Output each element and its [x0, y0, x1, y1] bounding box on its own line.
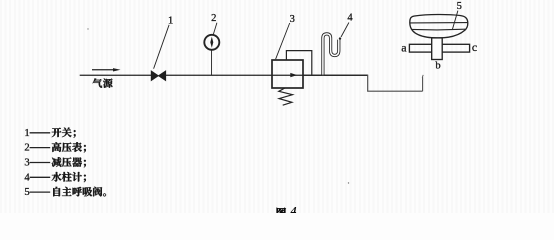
gauge stem wire: [211, 50, 213, 75]
label 气源 (gas source): [93, 78, 113, 87]
svg-text:3: 3: [24, 158, 29, 169]
reducer spring: [279, 88, 293, 105]
svg-text:4: 4: [24, 172, 30, 183]
valve 5 (autonomous breathing valve) bowl: [410, 15, 468, 38]
valve 1 (switch): [151, 71, 166, 81]
svg-text:5: 5: [24, 187, 29, 198]
gauge needle: [210, 37, 213, 48]
leader line to label 5: [452, 11, 458, 30]
stem port b: [432, 38, 443, 60]
side tube bar a-c: [409, 44, 469, 52]
svg-text:1: 1: [168, 16, 173, 27]
arrow gas flow direction: [92, 69, 114, 71]
svg-text:1: 1: [24, 128, 29, 139]
svg-text:5: 5: [457, 1, 462, 12]
reducer pilot line loop: [286, 51, 311, 75]
caption 图4 (Figure 4), clipped at bottom edge: [277, 208, 286, 218]
svg-text:2: 2: [24, 143, 29, 154]
svg-text:b: b: [435, 60, 440, 71]
leader line to label 1: [154, 25, 170, 69]
wire main line redrawn over tube base: [303, 74, 368, 76]
svg-text:c: c: [472, 40, 477, 54]
svg-text:4: 4: [347, 12, 353, 23]
svg-text:2: 2: [211, 13, 216, 24]
wire main line left segment (gas inlet to valve): [80, 74, 152, 76]
U-tube bore (inner white): [323, 34, 339, 76]
svg-text:4: 4: [290, 204, 297, 213]
water level dot at tube mouth: [339, 37, 341, 39]
scan speck: [87, 28, 88, 29]
scan speck 2: [348, 182, 349, 183]
gauge 2 (high pressure gauge) circle: [204, 35, 219, 50]
flow arrowhead inside reducer: [290, 73, 297, 77]
leader line to label 2: [213, 23, 217, 35]
svg-text:3: 3: [290, 14, 295, 25]
wire step down segment: [368, 75, 423, 92]
svg-text:a: a: [401, 40, 407, 54]
leader line to label 4: [341, 23, 349, 38]
regulator 3 (pressure reducer) box: [272, 60, 303, 88]
wire riser to breathing valve: [422, 77, 424, 91]
bowl lower section line: [411, 28, 465, 31]
wire valve to step: [166, 74, 368, 76]
bowl upper section line: [410, 22, 468, 24]
manometer 4 (water column) U-tube outer: [323, 34, 339, 75]
leader line to label 3: [276, 23, 290, 59]
